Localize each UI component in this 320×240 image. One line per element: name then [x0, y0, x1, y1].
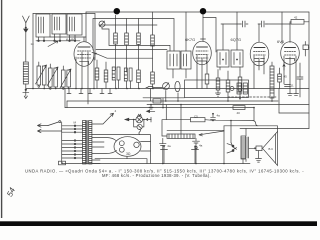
wire transformer bottom out [92, 160, 100, 164]
capacitor C8 [193, 138, 200, 163]
resistor R3 column [137, 19, 141, 89]
power transformer T1 secondary winding [89, 121, 92, 165]
punch hole dot left [114, 8, 120, 14]
tube U2 anode [197, 46, 208, 48]
coil L2 (aerial coil bank box 2) [52, 14, 66, 42]
wire x95 vertical [94, 14, 96, 61]
resistor R2 column [124, 19, 132, 89]
svg-text:11: 11 [291, 84, 294, 88]
pilot lamp LP1 [136, 114, 143, 123]
wire main earth bottom bus [62, 163, 250, 165]
IF transformer IF2 secondary [220, 12, 243, 70]
resistor R14 small [303, 42, 309, 57]
resistor R13 [278, 68, 282, 89]
capacitor C2 [258, 21, 267, 27]
wire top HT bus [86, 11, 309, 13]
tube U1 grids [78, 51, 91, 58]
tube U3 grids [254, 52, 266, 56]
wire U1 pin 1 [75, 57, 77, 89]
wire coil bottoms to tube [50, 36, 86, 38]
wire HT dropper bus [67, 100, 278, 102]
wire screen line [99, 24, 157, 26]
wire P2 stem [165, 91, 167, 102]
node U1 plate [95, 53, 97, 55]
resistor R4 column [151, 12, 155, 89]
svg-text:MF: 468 kc/s. - Produzione 193: MF: 468 kc/s. - Produzione 1938-39. - (V… [102, 173, 211, 178]
svg-text:14: 14 [31, 42, 35, 46]
trimmer pot P1 [99, 21, 109, 45]
power transformer T1 primary winding [83, 121, 86, 165]
tube U1 anode [78, 46, 90, 48]
wire U1 plate stub [83, 37, 85, 42]
coil L5 osc coil 1 with trimmer [37, 62, 46, 89]
scan bottom black bar [0, 221, 317, 226]
svg-text:45: 45 [284, 75, 288, 79]
rectifier U5 envelope [114, 137, 141, 157]
wire IF2 feed [203, 18, 216, 53]
rectifier U5 filament circles [119, 141, 139, 152]
wire IF1 feed upper [109, 45, 170, 51]
coil L7 osc coil 3 with trimmer [62, 66, 71, 89]
output transformer T2 secondary [247, 137, 249, 158]
mains plug arrows [38, 124, 62, 133]
ground symbol voice coil [256, 151, 262, 163]
ground symbol main [23, 89, 29, 99]
wire HT secondary bottom [92, 151, 117, 154]
scan left edge line [1, 0, 3, 218]
wire to speaker top [253, 121, 258, 126]
coil L6 osc coil 2 with trimmer [49, 64, 58, 89]
wire band switch row [36, 40, 80, 42]
svg-text:40: 40 [237, 111, 241, 115]
wire U1 plate riser [85, 12, 87, 42]
wire tone line [167, 129, 224, 131]
tube U3 6Q7G envelope [250, 42, 269, 66]
svg-text:4a: 4a [167, 144, 171, 148]
dial lamp feed arrow [92, 113, 114, 124]
wire field coil drop [245, 129, 247, 137]
resistor R9 tall grid resistor [270, 62, 274, 101]
svg-text:6V6: 6V6 [277, 39, 285, 44]
wire U3 grid cap [258, 24, 260, 42]
speaker jack contacts [227, 143, 237, 154]
resistor R5 horizontal [290, 20, 309, 25]
tube U2 6K7G envelope [193, 41, 212, 65]
fuse F1 [59, 161, 66, 165]
svg-text:6Q7G: 6Q7G [231, 37, 242, 42]
wire AVC bottom bus [65, 107, 254, 109]
capacitor C7 [160, 138, 167, 163]
selector taps upper [62, 125, 83, 133]
capacitor C11 [146, 87, 162, 102]
wire U3 pins [254, 56, 264, 89]
coil L3 (aerial coil bank box 3) [67, 14, 82, 42]
speaker cone [263, 132, 278, 166]
wire right loop horizontal [279, 112, 309, 114]
ground symbol R6 [216, 93, 221, 96]
resistor R7 [226, 71, 230, 101]
tube U2 grids [196, 51, 208, 58]
resistor R8 [238, 70, 242, 99]
tube U2 cathode [198, 61, 207, 64]
wire pickup bus [143, 97, 185, 99]
output transformer T2 winding [241, 136, 246, 159]
wire U5 cathode out [95, 156, 147, 163]
wire speaker branch drop [253, 108, 255, 121]
tube U1 6A8G envelope [74, 42, 94, 67]
capacitor C6 [211, 113, 216, 119]
svg-text:B.C: B.C [269, 147, 274, 151]
wire IF1 feed lower [96, 49, 167, 51]
wire osc grid diagonal [92, 53, 153, 59]
potentiometer P2 [163, 83, 170, 90]
wire C5 stem [177, 93, 179, 101]
tube U4 cathode [286, 59, 295, 62]
wire U2 grid cap [202, 12, 204, 42]
resistor R1 column [112, 15, 120, 88]
wire left bus drop [64, 89, 66, 108]
svg-text:3Ω: 3Ω [126, 152, 131, 156]
resistor R6 diode load [216, 70, 220, 94]
wire coupling drop [165, 105, 167, 120]
wire to grid resistor [267, 23, 290, 25]
wire U5 anode taps [141, 142, 151, 152]
wire right loop vertical [278, 89, 280, 114]
wire x67 drop [66, 101, 68, 108]
power transformer T1 core [87, 121, 88, 165]
svg-text:C5: C5 [194, 114, 198, 118]
trimmer arrow L7 [60, 69, 71, 88]
wire U4 plate stub [289, 24, 291, 43]
tube U4 anode [285, 47, 296, 49]
tube U1 cathode [80, 61, 89, 64]
wire U1 pin 3 [87, 52, 89, 104]
pilot lamp LP2 [133, 119, 145, 135]
wire grid coupling line [221, 23, 240, 25]
capacitor C1 [240, 21, 248, 27]
wiper arrow VR1 [199, 131, 224, 136]
wire HT secondary top [92, 138, 117, 142]
capacitor C12 [149, 105, 153, 109]
wire U4 pins [282, 12, 296, 89]
band switch arrow S1 [48, 41, 58, 47]
wire top coil bus [33, 13, 95, 15]
resistor R12 [233, 106, 245, 116]
selector taps lower [62, 140, 83, 159]
pilot lamp arrows [129, 119, 136, 121]
tube U3 diode plates [255, 58, 265, 60]
tube U3 cathode [255, 62, 264, 65]
svg-text:6A8G: 6A8G [66, 37, 76, 42]
tube U4 6V6 envelope [281, 42, 300, 65]
wire shield dashed [228, 96, 276, 98]
node cluster detector [153, 98, 163, 108]
wire U1 pin 4 [93, 57, 95, 89]
coil L4 oscillator padder coil [23, 62, 28, 89]
shield box detector [185, 80, 249, 98]
wire T2 bottom [243, 159, 246, 164]
capacitor stubs on ground bus [67, 89, 112, 94]
resistor R11 oscillator [95, 60, 99, 89]
wire speaker feed bottom [240, 128, 309, 130]
IF transformer IF2 primary [217, 24, 229, 67]
trimmer arrow L5 [36, 65, 47, 84]
junction dots ground bus [32, 88, 154, 90]
wire U1 pin 2 [81, 52, 83, 89]
resistor R15 oscillator 2 [104, 62, 108, 89]
tube U4 grids [285, 52, 296, 56]
capacitor C5 electrolytic oval [175, 81, 180, 91]
antenna [23, 16, 30, 62]
IF transformer IF1 primary [167, 51, 180, 69]
junction dots buses [150, 98, 273, 164]
voltage selector switch S2 [48, 121, 62, 164]
trimmer arrow L6 [47, 67, 58, 86]
capacitor C10 filter [192, 146, 199, 164]
svg-text:6K7G: 6K7G [185, 37, 195, 42]
svg-text:4a: 4a [199, 143, 203, 147]
tube U3 anode [254, 47, 265, 49]
volume pot VR1 [162, 134, 195, 138]
wire heater line [92, 135, 151, 164]
coil L1 (aerial coil bank box 1) [36, 14, 50, 42]
svg-text:4a: 4a [217, 114, 221, 118]
detector cluster coils [230, 83, 247, 94]
wire AVC line [93, 19, 174, 52]
punch hole dot right [200, 8, 206, 14]
wire decoupled bus [147, 104, 309, 106]
IF transformer IF1 secondary [173, 12, 191, 78]
capacitor C4 tone [297, 63, 303, 97]
capacitor C3 U4 cathode [285, 85, 291, 87]
wire left vertical [32, 14, 34, 89]
wire right edge drop [308, 12, 310, 129]
capacitor C9 filter [161, 146, 168, 164]
wire secondary mid taps [92, 142, 104, 147]
ground bus [26, 88, 309, 90]
svg-text:42: 42 [294, 16, 298, 20]
wire detector drop [180, 105, 182, 134]
resistor R10 coupling [162, 118, 253, 136]
wire U2 pins [197, 55, 209, 89]
voice coil [249, 146, 262, 151]
